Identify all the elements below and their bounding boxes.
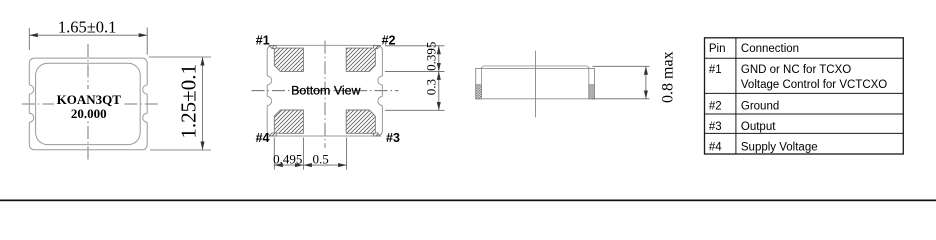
svg-text:#1: #1 [709, 64, 722, 76]
svg-text:Supply Voltage: Supply Voltage [741, 141, 818, 153]
svg-text:0.3: 0.3 [424, 79, 439, 95]
svg-text:0.395: 0.395 [424, 42, 439, 71]
svg-text:0.495: 0.495 [273, 151, 302, 166]
svg-text:0.5: 0.5 [312, 151, 328, 166]
svg-text:0.8 max: 0.8 max [659, 51, 676, 103]
svg-text:20.000: 20.000 [71, 106, 107, 121]
svg-text:Voltage Control for VCTCXO: Voltage Control for VCTCXO [741, 79, 887, 91]
svg-text:1.65±0.1: 1.65±0.1 [58, 18, 117, 37]
svg-text:#3: #3 [709, 121, 722, 133]
svg-text:#2: #2 [709, 101, 722, 113]
svg-text:1.25±0.1: 1.25±0.1 [177, 64, 201, 139]
svg-text:#1: #1 [256, 34, 270, 48]
svg-text:#4: #4 [256, 131, 270, 145]
svg-text:#4: #4 [709, 141, 722, 153]
svg-text:Ground: Ground [741, 101, 779, 113]
svg-text:Bottom View: Bottom View [291, 84, 360, 98]
svg-text:Pin: Pin [709, 43, 726, 55]
svg-text:Output: Output [741, 121, 776, 133]
svg-text:#3: #3 [386, 131, 400, 145]
svg-text:GND or NC for TCXO: GND or NC for TCXO [741, 64, 851, 76]
svg-text:KOAN3QT: KOAN3QT [57, 92, 122, 107]
svg-text:Connection: Connection [741, 43, 799, 55]
